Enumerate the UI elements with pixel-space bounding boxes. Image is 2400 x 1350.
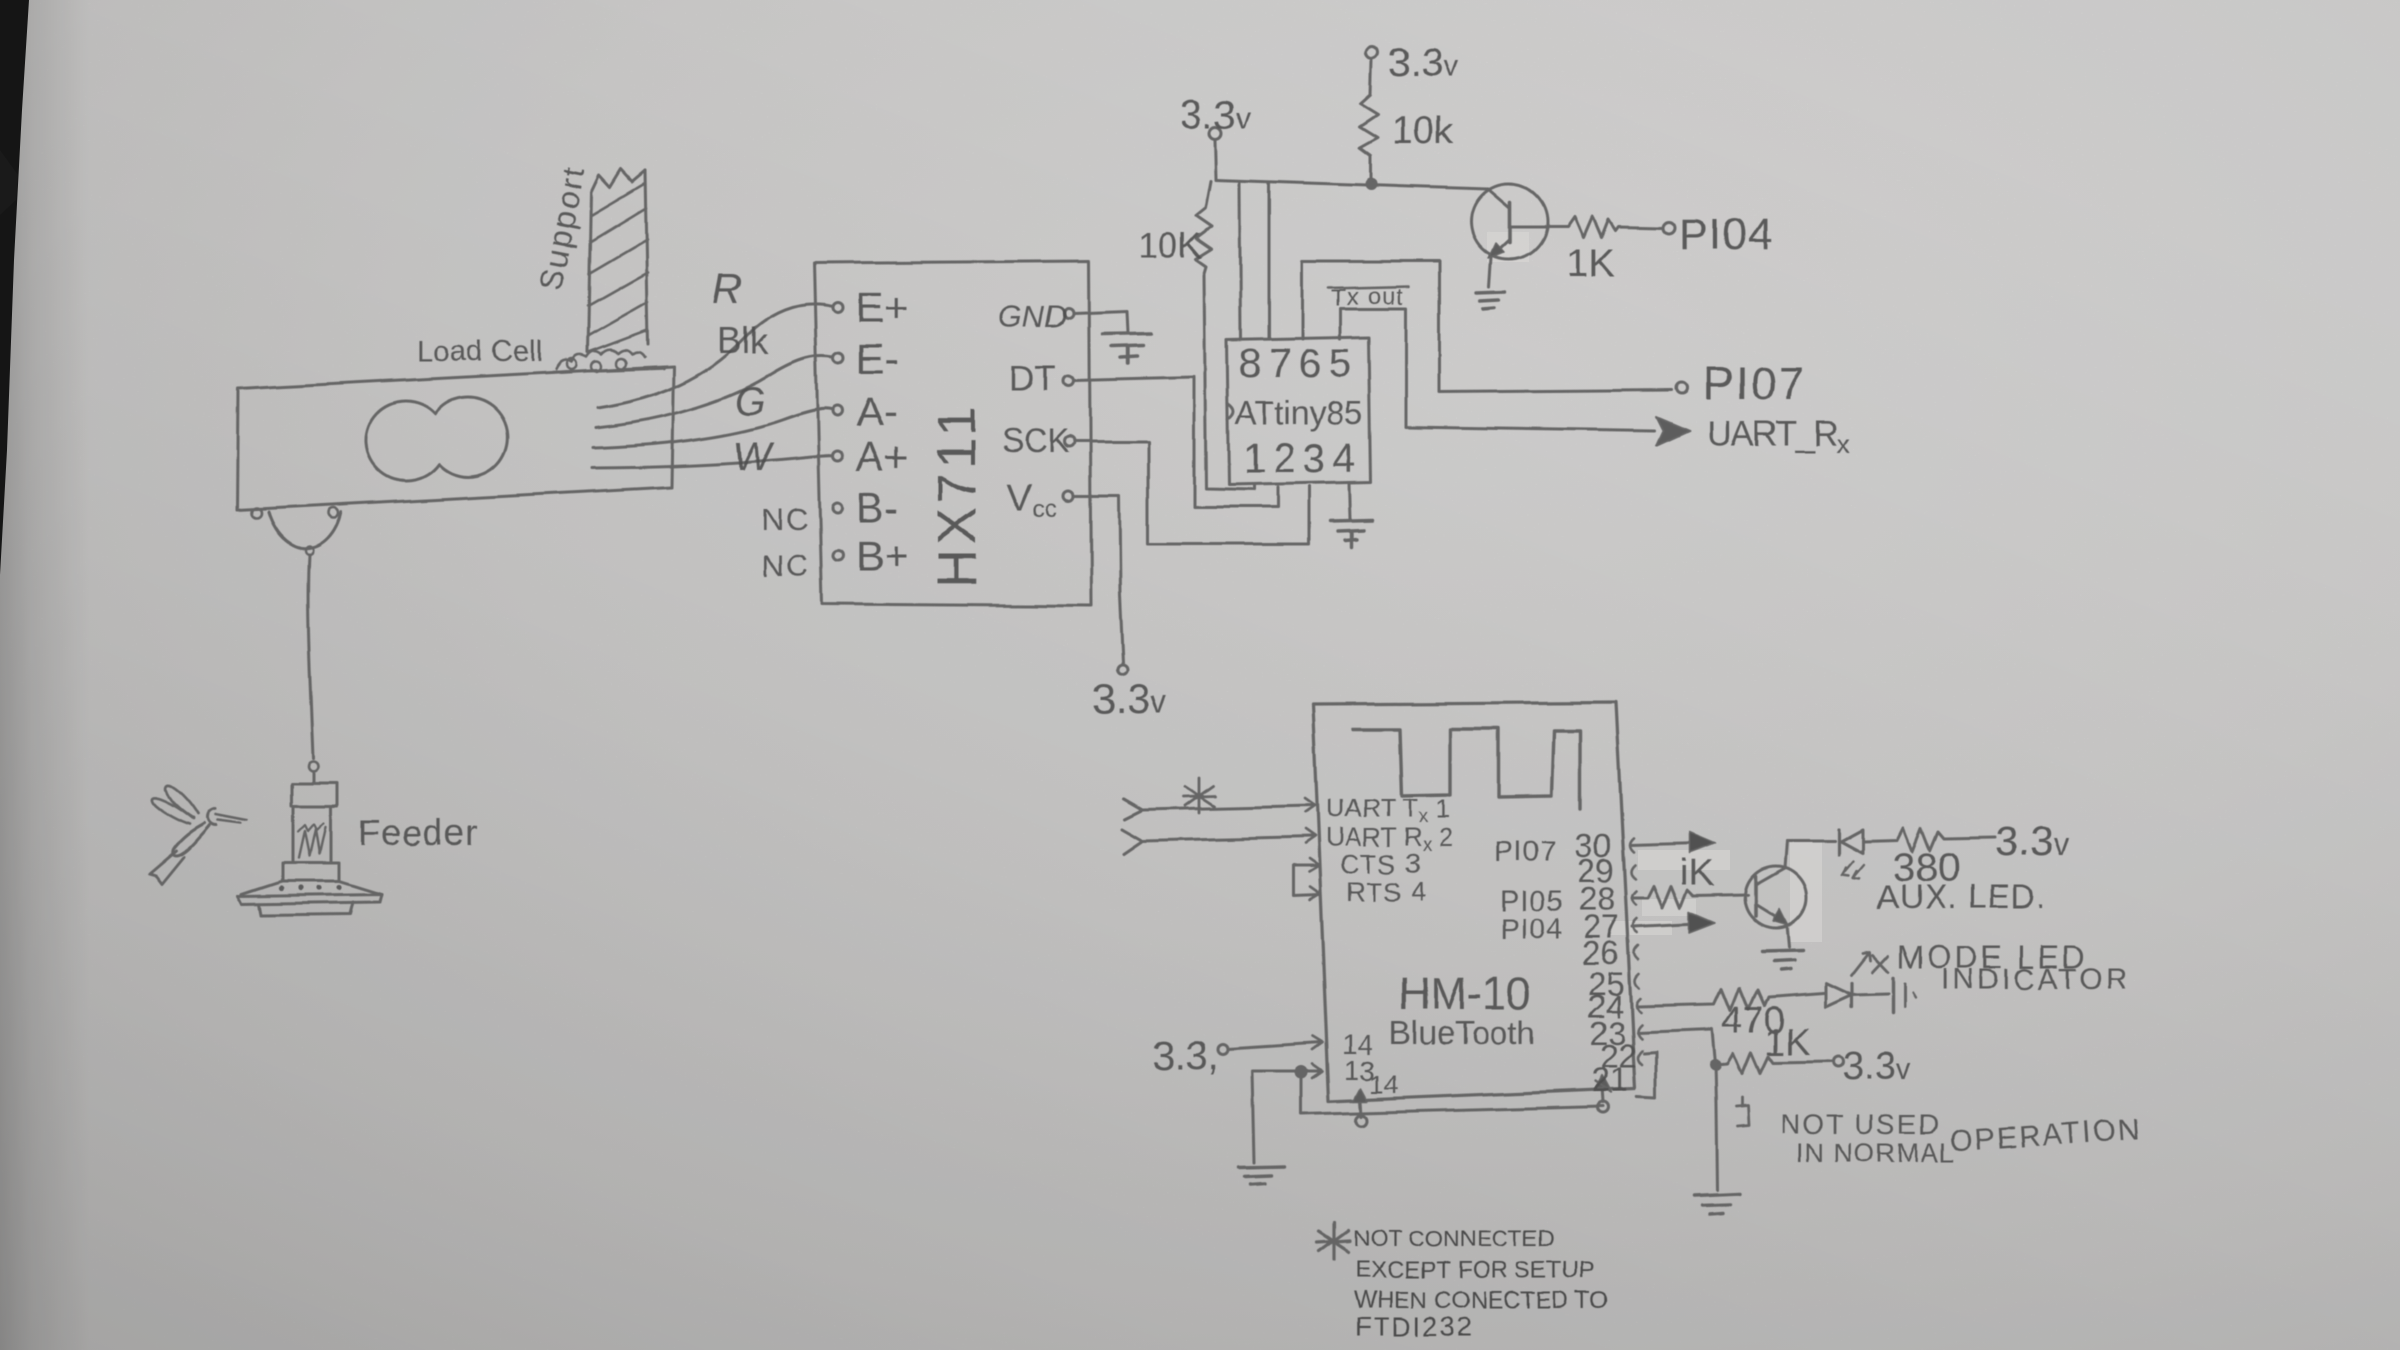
- svg-text:CTS 3: CTS 3: [1340, 849, 1422, 879]
- svg-text:NOT USED: NOT USED: [1780, 1109, 1940, 1140]
- svg-text:FTDI232: FTDI232: [1355, 1312, 1474, 1342]
- svg-text:RTS 4: RTS 4: [1346, 877, 1427, 907]
- svg-text:B-: B-: [856, 484, 898, 531]
- svg-text:BlueTooth: BlueTooth: [1389, 1014, 1536, 1051]
- svg-text:A+: A+: [856, 433, 909, 480]
- svg-text:Blk: Blk: [718, 320, 769, 361]
- svg-text:R: R: [712, 265, 742, 312]
- svg-text:14: 14: [1370, 1069, 1399, 1099]
- svg-text:W: W: [733, 435, 774, 479]
- svg-text:Feeder: Feeder: [358, 812, 478, 853]
- svg-text:PI04: PI04: [1500, 914, 1564, 946]
- svg-text:21: 21: [1591, 1061, 1628, 1098]
- svg-text:iK: iK: [1680, 852, 1714, 894]
- svg-text:HX711: HX711: [927, 402, 987, 588]
- svg-text:PI07: PI07: [1494, 836, 1558, 868]
- svg-text:10K: 10K: [1138, 225, 1202, 266]
- svg-text:WHEN CONECTED TO: WHEN CONECTED TO: [1354, 1287, 1608, 1314]
- svg-text:10k: 10k: [1392, 110, 1454, 152]
- svg-text:B+: B+: [856, 532, 909, 579]
- svg-text:Tx out: Tx out: [1331, 284, 1404, 311]
- svg-text:UART_Rx: UART_Rx: [1707, 415, 1850, 459]
- svg-text:NC: NC: [762, 548, 811, 583]
- svg-text:Load Cell: Load Cell: [416, 335, 543, 368]
- svg-text:A-: A-: [856, 388, 898, 435]
- svg-text:8765: 8765: [1239, 340, 1358, 386]
- svg-text:E+: E+: [856, 284, 909, 331]
- svg-text:INDICATOR: INDICATOR: [1941, 963, 2130, 996]
- svg-text:GND: GND: [998, 299, 1067, 334]
- svg-text:1234: 1234: [1243, 435, 1362, 481]
- svg-text:PI04: PI04: [1679, 210, 1774, 259]
- svg-text:PI07: PI07: [1703, 357, 1806, 409]
- svg-text:IN NORMAL: IN NORMAL: [1796, 1138, 1955, 1168]
- svg-text:1K: 1K: [1566, 242, 1615, 286]
- svg-text:NOT CONNECTED: NOT CONNECTED: [1354, 1225, 1554, 1251]
- svg-text:HM-10: HM-10: [1398, 968, 1531, 1019]
- svg-text:1K: 1K: [1764, 1022, 1810, 1064]
- svg-text:DT: DT: [1009, 359, 1056, 398]
- svg-text:ATtiny85: ATtiny85: [1235, 394, 1363, 431]
- svg-text:SCK: SCK: [1002, 422, 1070, 459]
- svg-text:3.3,: 3.3,: [1152, 1034, 1219, 1078]
- svg-text:NC: NC: [762, 502, 811, 537]
- svg-text:AUX. LED.: AUX. LED.: [1877, 878, 2046, 915]
- svg-text:E-: E-: [856, 335, 898, 382]
- svg-text:EXCEPT FOR SETUP: EXCEPT FOR SETUP: [1355, 1257, 1595, 1284]
- svg-text:G: G: [735, 380, 766, 424]
